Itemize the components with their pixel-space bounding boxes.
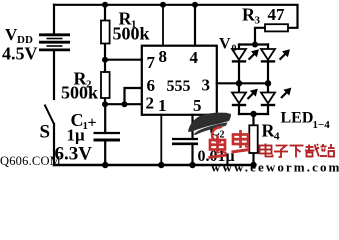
IC U1 555 timer box [142,46,217,115]
svg-text:7: 7 [147,53,156,72]
wire R1 bottom to node [104,44,106,61]
wire R3 left to LED top node [255,28,265,45]
svg-text:3: 3 [255,15,261,27]
watermark bug char 2 [232,130,250,152]
watermark red ring around C2 [212,127,222,142]
wire pin6 [125,88,142,104]
LED D4 arrow [281,89,290,98]
wire LED top node [239,43,268,45]
wire LED1 cathode to pin3 node [238,62,240,84]
svg-text:1μ: 1μ [67,126,86,145]
svg-text:3: 3 [202,76,211,95]
wire R1 top [104,5,106,21]
capacitor C2 plates [172,139,198,144]
junction LED1 cathode at pin3 node [236,80,242,86]
wire LED3 anode [238,83,240,92]
wire pin8 to VDD [162,5,164,46]
LED D4 [261,93,275,106]
svg-text:500k: 500k [61,83,98,103]
junction R3 at LED top node V0 [252,42,258,48]
wire R4 bottom [252,153,254,165]
wire C1 to ground [104,140,106,165]
svg-text:V: V [219,36,231,53]
watermark swoosh logo [188,113,231,135]
battery B1 [39,35,70,50]
junction pin4 at VDD rail [192,2,198,8]
watermark bug char 1 [209,136,227,158]
wire pin1 to ground [160,115,162,165]
wire node to pin7 [105,59,142,61]
wire pin5 to C2 [191,115,193,139]
char zai [305,144,319,157]
wire battery bottom to switch [53,51,55,99]
junction C1 at ground rail [102,162,108,168]
LED D1 [232,49,246,61]
watermark text dianzi xiazaizhan [260,144,335,158]
svg-text:6: 6 [147,76,156,95]
wire C2 to ground [191,144,193,165]
char zi [274,146,288,158]
wire bottom ground rail [54,164,255,167]
svg-text:4.5V: 4.5V [2,44,38,64]
svg-text:LED: LED [281,110,314,127]
wire LED4 anode [267,83,269,92]
LED D2 [261,49,275,61]
junction C2 at ground rail [189,162,195,168]
svg-text:Q606.COM: Q606.COM [0,154,61,168]
junction LED bottom node at R4 [250,111,256,117]
svg-text:S: S [40,122,51,143]
LED D3 arrow [248,90,257,99]
wire pin4 to VDD [194,5,196,46]
svg-text:500k: 500k [113,23,150,43]
resistor R2 [101,72,110,98]
junction node B R2-C1-pin2 [102,101,108,107]
resistor R3 [265,24,288,31]
svg-text:555: 555 [167,78,191,95]
junction R1 top at VDD rail [102,2,108,8]
svg-text:8: 8 [159,47,168,66]
wire LED2 cathode to pin3 node [267,62,269,84]
wire R2 bottom to node [104,98,106,104]
LED D3 [232,93,246,106]
svg-text:www.eeworm.com: www.eeworm.com [211,160,339,174]
char xia [290,146,304,158]
svg-text:47: 47 [268,5,286,24]
svg-text:1: 1 [158,96,167,115]
wire top rail VDD [54,5,298,28]
junction LED2 cathode at pin3 node [265,80,271,86]
junction pin6 on pin2 wire [122,101,128,107]
junction R4 at ground rail [250,162,256,168]
junction pin8 at VDD rail [160,2,166,8]
wire LED1 anode [238,45,240,50]
wire node to R2 [104,60,106,72]
junction node A R1-R2-pin7 [102,57,108,63]
LED D2 arrow [280,51,289,60]
svg-text:+: + [88,115,97,132]
wire switch to ground rail [53,124,55,165]
wire pin3 output to LED mid node [217,82,268,84]
char dian [260,144,273,157]
junction pin1 at ground rail [158,162,164,168]
wire LED3 cathode to bottom node [238,106,240,114]
wire node to C1 [104,104,106,133]
svg-text:0: 0 [232,44,237,55]
wire battery top [53,5,55,34]
capacitor C1 plates [94,133,121,140]
LED D1 arrow [249,51,258,60]
resistor R4 [249,125,257,153]
svg-text:1−4: 1−4 [313,119,331,131]
wire LED bottom node [239,113,268,115]
svg-text:4: 4 [190,48,199,67]
wire R4 top [252,114,254,125]
char zhan [320,144,335,157]
wire LED4 cathode to bottom node [267,106,269,114]
svg-text:5: 5 [193,96,202,115]
svg-text:2: 2 [146,94,155,113]
wire pin2 [105,103,142,105]
resistor R1 [101,21,110,44]
svg-text:4: 4 [274,131,280,143]
switch S blade [45,106,54,125]
wire LED2 anode [267,45,269,50]
